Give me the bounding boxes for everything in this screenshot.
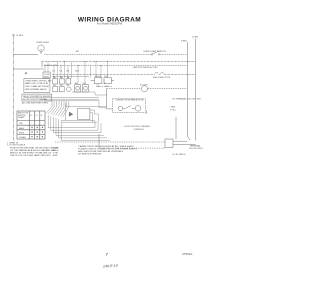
- svg-text:MTR: MTR: [44, 76, 49, 78]
- svg-text:L2: L2: [36, 115, 38, 117]
- svg-text:FUSE IN THE NEUTRAL OR GROUND: FUSE IN THE NEUTRAL OR GROUND CIRCUIT: [10, 146, 59, 149]
- svg-text:RLY: RLY: [105, 76, 109, 78]
- svg-text:R1: R1: [53, 85, 56, 87]
- svg-text:L2 RD: L2 RD: [192, 36, 199, 38]
- svg-text:K2: K2: [60, 71, 63, 73]
- svg-text:OFF: OFF: [19, 123, 24, 125]
- svg-text:For Model RB262PW: For Model RB262PW: [97, 22, 123, 26]
- svg-text:K1: K1: [53, 71, 56, 73]
- svg-text:FL 46 1830 4: FL 46 1830 4: [173, 154, 187, 156]
- svg-text:+ DN2: + DN2: [169, 107, 176, 109]
- svg-text:4HD 2083 CP 1/5: 4HD 2083 CP 1/5: [153, 77, 171, 79]
- svg-text:R2: R2: [60, 85, 63, 87]
- svg-text:BAKE: BAKE: [19, 127, 25, 130]
- svg-text:4.: 4.: [104, 83, 106, 85]
- svg-text:N.C.: N.C.: [105, 86, 109, 88]
- svg-text:OVEN LIGHT SWITCH: OVEN LIGHT SWITCH: [143, 51, 166, 53]
- svg-text:47501A: 47501A: [182, 252, 192, 256]
- svg-text:THE CLOCK OR OVEN LAMP CIRCUIT: THE CLOCK OR OVEN LAMP CIRCUITS: [10, 154, 51, 157]
- svg-text:2. DO NOT USE A: 2. DO NOT USE A: [7, 144, 25, 147]
- svg-text:OR: OR: [83, 83, 87, 85]
- svg-text:SELECTOR SWITCH SHOWN: SELECTOR SWITCH SHOWN: [23, 96, 51, 98]
- svg-text:OVEN TEMP CONTROL SET: OVEN TEMP CONTROL SET: [25, 80, 52, 82]
- svg-text:ELECTRONIC RANGE: ELECTRONIC RANGE: [125, 125, 151, 128]
- svg-text:CHART: CHART: [18, 116, 25, 119]
- svg-text:BK: BK: [76, 51, 79, 53]
- svg-text:N: N: [41, 115, 43, 117]
- svg-text:146-E-14: 146-E-14: [103, 264, 118, 269]
- svg-text:OF THIS RANGE AS A SHOCK HAZAR: OF THIS RANGE AS A SHOCK HAZARD MAY: [10, 149, 56, 152]
- svg-text:GRN: GRN: [53, 155, 58, 157]
- svg-text:HI LIM: HI LIM: [95, 76, 101, 78]
- svg-text:IN OFF POSITION DETAIL: IN OFF POSITION DETAIL: [23, 98, 48, 101]
- svg-text:550F CLEAN SETTING AT: 550F CLEAN SETTING AT: [25, 85, 50, 88]
- svg-text:BK: BK: [75, 83, 78, 85]
- svg-text:CLEAN: CLEAN: [19, 136, 26, 139]
- svg-text:BAKE 100F TO BROIL AT: BAKE 100F TO BROIL AT: [25, 82, 49, 85]
- svg-text:BROIL: BROIL: [19, 132, 25, 134]
- svg-text:P BK1: P BK1: [181, 40, 188, 42]
- svg-text:880F NOMINAL VALUE: 880F NOMINAL VALUE: [25, 88, 47, 91]
- svg-text:RESULT IN THE EVENT OF FAILURE: RESULT IN THE EVENT OF FAILURE OF: [10, 152, 52, 155]
- svg-text:L1 BLK: L1 BLK: [16, 35, 24, 37]
- svg-text:OVEN LIGHT: OVEN LIGHT: [36, 42, 50, 44]
- svg-text:BY SERVICE PERSON: BY SERVICE PERSON: [78, 154, 101, 156]
- svg-text:N.O.: N.O.: [96, 86, 101, 88]
- svg-text:ALL LINE SWITCHES OPEN: ALL LINE SWITCHES OPEN: [22, 102, 48, 105]
- svg-text:L1: L1: [30, 115, 32, 117]
- svg-text:ANTI-TIP SWITCH 120V: ANTI-TIP SWITCH 120V: [134, 66, 159, 69]
- svg-text:BLOCK GR S: BLOCK GR S: [190, 148, 204, 150]
- svg-text:CONVECTION FAN MOTOR: CONVECTION FAN MOTOR: [115, 98, 144, 101]
- svg-text:CONTROL: CONTROL: [133, 129, 144, 131]
- svg-text:DOOR LOCK: DOOR LOCK: [44, 65, 58, 67]
- svg-text:TY4C: TY4C: [170, 109, 176, 111]
- svg-text:4X OTP: 4X OTP: [140, 84, 148, 86]
- svg-text:K3: K3: [67, 71, 70, 73]
- svg-text:7: 7: [106, 252, 109, 257]
- svg-text:OV THERMAL CUT-OUT SW: OV THERMAL CUT-OUT SW: [172, 98, 201, 101]
- svg-text:DLB: DLB: [75, 71, 80, 73]
